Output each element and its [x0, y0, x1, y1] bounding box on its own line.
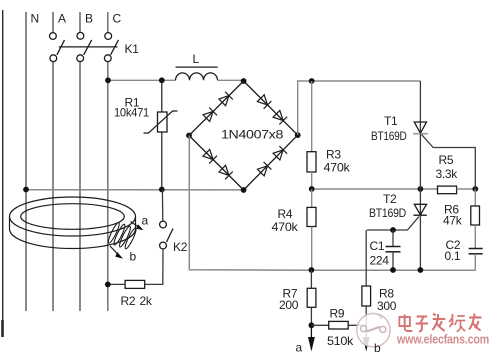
resistor R6 lead bottom: [474, 225, 476, 249]
switch K2 lever: [167, 229, 174, 243]
thyristor T1 triangle: [414, 122, 426, 133]
switch K2 bottom lead: [145, 249, 163, 284]
node junction R3/R4: [309, 186, 315, 192]
svg-text:C: C: [113, 12, 122, 26]
bridge rectifier 1N4007x8 diamond: [189, 81, 298, 190]
resistor R6 body: [471, 206, 480, 225]
bridge diode D5 left-bottom edge upper: [203, 150, 217, 164]
switch K1 pole C: [104, 33, 118, 62]
resistor R8 lead top (gate line down): [365, 230, 367, 286]
resistor R5 body: [438, 186, 457, 194]
bridge diode D4 top-right edge lower: [273, 111, 287, 125]
wire phase line C upper: [107, 12, 109, 33]
node junction R1 top: [159, 77, 165, 83]
wire phase line N: [25, 12, 27, 311]
capacitor C2 plates: [469, 249, 483, 254]
bridge diode D2 left-top edge upper: [219, 92, 233, 106]
子: [416, 317, 428, 332]
node junction R3 top: [309, 78, 315, 84]
terminal arrow b (output): [363, 337, 370, 352]
node junction R2 / phase C: [105, 282, 111, 288]
svg-text:L: L: [193, 52, 200, 66]
svg-text:R5: R5: [439, 153, 454, 167]
node junction T1 gate / R6 top: [472, 186, 478, 192]
wire phase line A lower: [52, 62, 54, 311]
transformer toroid core inner ellipse: [21, 204, 125, 230]
capacitor C1 plates: [386, 247, 401, 252]
varistor R1 diagonal stroke: [144, 111, 178, 133]
svg-text:200: 200: [279, 298, 299, 312]
thyristor T1 cathode bar: [413, 133, 428, 135]
varistor R1 body: [158, 112, 168, 132]
svg-text:300: 300: [377, 299, 397, 313]
node junction C1 top / gate: [390, 227, 396, 233]
bridge diode D8 bottom-right edge upper: [273, 146, 287, 160]
switch K2 bottom contact: [160, 242, 167, 249]
switch K2 top lead: [161, 190, 163, 222]
node bridge left corner: [186, 133, 192, 139]
resistor R9 lead left: [311, 324, 328, 326]
transformer toroid core lower arc: [10, 217, 136, 249]
node junction R1 bottom / K2 top: [159, 187, 165, 193]
wire phase line A upper: [52, 12, 54, 33]
transformer winding lead b: [110, 246, 123, 259]
svg-text:www.elecfans.com: www.elecfans.com: [396, 333, 489, 347]
wire phase line C lower: [107, 62, 109, 311]
node junction T1 cathode / T2 anode: [418, 186, 424, 192]
resistor R7 body: [307, 288, 316, 307]
varistor R1 lead top: [161, 80, 163, 112]
bridge diode D1 left-top edge lower: [203, 108, 217, 122]
capacitor C1 bottom lead: [392, 252, 394, 270]
node bridge right corner: [295, 132, 301, 138]
thyristor T2 gate wire: [367, 217, 419, 231]
thyristor T1 anode lead: [419, 81, 421, 134]
svg-text:BT169D: BT169D: [371, 129, 407, 143]
terminal arrow a (output): [308, 325, 315, 351]
友: [469, 314, 481, 331]
node junction bottom rail C1: [390, 267, 396, 273]
border frame left edge: [2, 10, 4, 337]
wire phase line B upper: [79, 12, 81, 32]
svg-text:BT169D: BT169D: [369, 206, 407, 220]
resistor R9 body: [329, 321, 349, 329]
svg-text:R9: R9: [330, 307, 345, 321]
switch K1 linkage bar: [59, 46, 118, 48]
resistor R9 lead right: [348, 324, 366, 326]
thyristor T2 cathode bar: [414, 214, 427, 216]
resistor R4 body: [307, 207, 316, 226]
svg-text:470k: 470k: [324, 161, 351, 175]
capacitor C2 bottom lead: [474, 254, 476, 271]
switch K1 pole A: [50, 33, 65, 62]
bridge diode D7 bottom-right edge lower: [257, 162, 271, 176]
wire top rail left: [108, 79, 176, 81]
wire phase line B lower: [79, 62, 81, 311]
svg-text:K1: K1: [125, 42, 140, 56]
svg-text:47k: 47k: [443, 214, 463, 228]
transformer toroid core outer ellipse: [10, 197, 136, 236]
svg-text:10k471: 10k471: [114, 106, 150, 120]
resistor R7 lead top: [310, 270, 312, 288]
switch K2 top contact: [160, 221, 167, 228]
capacitor C1 top lead: [392, 230, 394, 247]
resistor R8 body: [362, 286, 371, 306]
wire mid rail y190: [26, 189, 244, 191]
wire R5 right lead: [457, 188, 476, 190]
svg-text:a: a: [142, 214, 149, 228]
svg-text:2k: 2k: [140, 294, 153, 308]
resistor R4 lead top: [311, 189, 313, 207]
svg-text:R2: R2: [121, 294, 136, 308]
bridge diode D6 left-bottom edge lower: [219, 165, 233, 179]
svg-text:T2: T2: [383, 192, 397, 206]
node junction bottom rail R4/R7: [309, 267, 315, 273]
resistor R8 lead bottom: [365, 306, 367, 340]
inductor L: [176, 73, 218, 80]
switch K1 pole B: [77, 32, 92, 61]
resistor R3 lead top: [311, 81, 313, 152]
node junction N mid rail: [23, 187, 29, 193]
node junction bottom rail T2: [418, 267, 424, 273]
发: [432, 314, 445, 332]
inductor L label underline: [176, 66, 218, 68]
svg-text:A: A: [58, 12, 66, 26]
resistor R3 lead bottom: [311, 172, 313, 189]
resistor R3 body: [307, 152, 316, 172]
node bridge top corner: [241, 78, 247, 84]
thyristor T1 gate wire: [422, 135, 476, 190]
烧: [449, 314, 465, 332]
thyristor T1 cathode lead: [419, 134, 421, 189]
transformer winding loops: [107, 221, 138, 249]
wire right mid rail: [312, 188, 438, 190]
wire bridge left corner down to bottom rail: [189, 136, 475, 271]
svg-text:R3: R3: [326, 148, 341, 162]
thyristor T2 anode lead: [419, 189, 421, 215]
svg-text:470k: 470k: [272, 220, 299, 234]
resistor R7 lead bottom: [310, 307, 312, 325]
watermark logo circle: [357, 313, 390, 347]
node junction R7/R9: [309, 322, 315, 328]
svg-text:C1: C1: [370, 239, 385, 253]
resistor R4 lead bottom: [311, 227, 313, 271]
svg-text:N: N: [31, 12, 39, 26]
svg-text:T1: T1: [384, 114, 398, 128]
wire bridge right corner up and right: [298, 81, 312, 135]
node bridge bottom corner: [241, 187, 247, 193]
svg-text:b: b: [130, 250, 137, 264]
resistor R6 lead top: [474, 189, 476, 206]
thyristor T2 cathode lead: [419, 215, 421, 270]
resistor R2 body: [125, 280, 145, 288]
电: [399, 315, 412, 332]
svg-text:b: b: [374, 341, 381, 355]
watermark chinese text 电子发烧友 (drawn strokes): [399, 314, 481, 332]
svg-text:3.3k: 3.3k: [436, 167, 459, 181]
svg-text:0.1: 0.1: [445, 249, 461, 263]
varistor R1 lead bottom: [161, 132, 163, 189]
thyristor T2 triangle: [414, 204, 426, 215]
svg-text:K2: K2: [173, 240, 188, 254]
resistor R2 lead left: [108, 283, 125, 285]
svg-text:a: a: [296, 341, 303, 355]
svg-text:B: B: [85, 12, 93, 26]
svg-text:224: 224: [370, 254, 390, 268]
node junction C top rail: [105, 77, 111, 83]
svg-text:510k: 510k: [327, 334, 354, 348]
wire top rail right of L: [218, 79, 244, 81]
wire positive rail to T1: [312, 80, 421, 82]
transformer winding lead a: [131, 222, 144, 231]
bridge diode D3 top-right edge upper: [257, 95, 271, 109]
svg-text:1N4007x8: 1N4007x8: [221, 128, 284, 142]
